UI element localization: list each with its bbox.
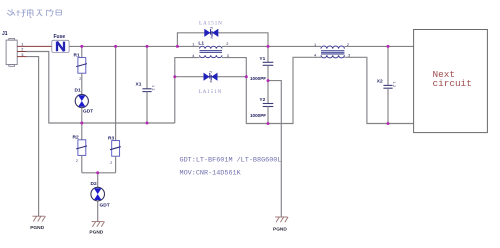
varistor R2 [73,123,88,173]
junction X2 top [387,45,390,48]
GDT D2 [91,181,110,208]
varistor R1 [74,46,88,94]
capacitor Y1 [250,46,273,81]
J1 pin numbers 1 2 3 [21,42,23,57]
capacitor X1 [136,46,156,123]
wire J1 pin3 right and down to PGND [26,57,39,217]
svg-text:2: 2 [151,89,155,91]
svg-text:circuit: circuit [433,78,472,89]
junction R3 top bus [114,45,117,48]
junction upper tube left [176,45,179,48]
svg-text:PGND: PGND [89,229,103,235]
svg-text:GDT: GDT [100,203,110,209]
wire Y midpoint to PGND right [268,81,281,217]
svg-text:Y1: Y1 [259,56,265,62]
varistor R3 [108,46,121,172]
svg-text:X1: X1 [136,82,142,88]
svg-text:J1: J1 [2,31,8,37]
wire joining R2 R3 bottoms [82,172,116,174]
junction D2 top [96,171,99,174]
top bus: fuse to L1 pin 1 [69,45,199,47]
wire J1 pin2 right and down to neutral bus [26,52,175,124]
svg-text:3: 3 [21,52,23,57]
svg-text:LA151N: LA151N [199,21,223,27]
wire T2 pin2 to next circuit box [344,45,413,47]
svg-text:3: 3 [348,52,350,57]
svg-text:PGND: PGND [30,225,44,231]
svg-text:D1: D1 [75,88,81,94]
svg-text:2: 2 [79,77,81,81]
transformer T2 [314,42,350,58]
svg-text:1: 1 [314,42,316,47]
svg-text:1000PF: 1000PF [250,76,266,81]
title 浪拓电子防雷 (approximated strokes) [7,9,62,18]
junction D1 neutral bus [80,122,83,125]
svg-text:L1: L1 [198,41,204,47]
wire L1 pin2 to T2 pin1 [222,45,321,47]
ground PGND middle [89,222,104,236]
svg-text:2: 2 [76,159,78,163]
svg-text:2: 2 [392,85,396,87]
ground PGND right [273,217,288,232]
junction X2 bottom [387,122,390,125]
connector J1 [2,31,17,66]
junction R1 top bus [80,45,83,48]
svg-text:X2: X2 [377,79,383,85]
J1 pin stubs [17,46,52,56]
wire D2 to PGND [97,201,99,222]
lower GDT tube branch wire [175,76,247,78]
junction upper tube right / Y1 top [267,45,270,48]
junction lower tube left [173,75,176,78]
ground PGND left [30,216,45,231]
junction X1 bottom [146,122,149,125]
svg-text:1: 1 [151,85,155,87]
svg-text:GDT:LT-BF601M /LT-B8G600L: GDT:LT-BF601M /LT-B8G600L [180,156,282,164]
GDT tube upper (back-to-back diodes) [204,28,218,38]
junction Y1/Y2 midpoint [267,79,270,82]
svg-text:2: 2 [226,41,228,46]
capacitor Y2 [250,81,273,124]
svg-text:1: 1 [192,41,194,46]
wire junction to D2 [97,173,99,188]
svg-text:D2: D2 [91,181,97,187]
junction Y2 bottom [267,122,270,125]
svg-text:2: 2 [110,161,112,165]
svg-text:MOV:CNR-14D561K: MOV:CNR-14D561K [180,169,242,177]
svg-text:1: 1 [392,82,396,84]
GDT D1 [75,88,94,123]
svg-text:LA151N: LA151N [199,89,223,95]
svg-text:1000PF: 1000PF [250,113,266,118]
junction lower tube right [245,75,248,78]
wire L1 pin4 left and down to neutral [175,58,200,123]
svg-text:Y2: Y2 [259,97,265,103]
svg-text:Fuse: Fuse [54,34,66,40]
svg-text:PGND: PGND [273,226,287,232]
GDT tube lower (back-to-back diodes) [204,72,218,82]
capacitor X2 [377,46,396,123]
wire L1 pin3 right and down to output bus [222,57,321,123]
fuse "Fuse" [52,34,69,53]
next circuit box [414,30,488,133]
junction X1 top bus [146,45,149,48]
svg-text:GDT: GDT [83,109,93,115]
upper GDT tube branch wire [177,33,268,47]
transformer L1 [192,41,228,59]
wire T2 pin3 down and to box bottom [344,57,413,123]
